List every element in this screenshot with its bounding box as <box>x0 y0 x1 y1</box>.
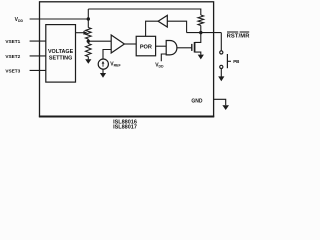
wire buffer input from RST node <box>167 21 186 32</box>
transistor Q1 drain <box>195 33 201 43</box>
wire VDD to AND lower input <box>161 54 166 61</box>
IC outline bottom edge (thicker) <box>39 116 214 118</box>
wire VDD rail up from junction <box>87 9 89 28</box>
ground symbol GND pin <box>222 105 229 110</box>
svg-text:ISL88017: ISL88017 <box>113 125 137 131</box>
AND gate <box>166 41 177 55</box>
buffer feedback (points left) <box>158 15 167 27</box>
wire POR to AND gate <box>156 45 167 47</box>
ground below VREF <box>102 69 104 73</box>
resistor divider bottom <box>86 44 92 57</box>
pull-up resistor R1 <box>198 15 204 26</box>
wire VREF to comparator <box>103 50 111 60</box>
wire wiper from voltage setting to divider <box>76 32 85 34</box>
transistor Q1 channel bar <box>194 42 196 53</box>
wire RST/MR output <box>187 32 222 34</box>
ground below MOSFET <box>198 55 204 60</box>
VREF arrow inside <box>102 63 104 67</box>
svg-text:SETTING: SETTING <box>49 56 72 62</box>
ground below divider <box>87 57 89 60</box>
wire tap to comparator <box>87 39 89 44</box>
ground below PB <box>218 76 224 81</box>
wire VSET2 <box>30 55 46 57</box>
PB contact circle top <box>220 51 223 54</box>
svg-text:VSET2: VSET2 <box>5 54 20 59</box>
svg-text:VSET1: VSET1 <box>5 39 20 44</box>
wire buffer output to POR top <box>146 21 159 36</box>
svg-text:PB: PB <box>233 59 239 64</box>
node divider tap dot <box>87 40 90 43</box>
node VDD junction dot <box>87 17 90 20</box>
PB contact circle bottom <box>220 65 223 68</box>
svg-text:POR: POR <box>140 44 152 50</box>
wire VSET3 <box>30 69 46 71</box>
svg-text:GND: GND <box>191 99 203 105</box>
IC outline box <box>40 2 214 117</box>
wire PB to ground <box>220 68 222 76</box>
wire VSET1 <box>30 40 46 42</box>
block POR <box>136 36 155 56</box>
node RST junction dot <box>199 31 202 34</box>
reference VREF source circle <box>98 59 108 69</box>
PB tick <box>227 60 231 62</box>
wiper arrowhead <box>83 31 87 35</box>
resistor divider top (pot) <box>86 28 92 40</box>
wire VDD input <box>30 18 89 20</box>
comparator U1 <box>111 35 124 53</box>
svg-text:RST/MR: RST/MR <box>227 33 251 39</box>
transistor Q1 gate bar <box>191 44 193 51</box>
svg-text:VOLTAGE: VOLTAGE <box>48 49 74 55</box>
wire resistor to RST node <box>200 26 202 33</box>
wire comparator output to POR <box>124 43 136 45</box>
wire AND output to MOSFET gate <box>177 47 192 49</box>
push button PB branch wire <box>220 33 222 51</box>
wire top VDD rail <box>88 9 201 15</box>
wire GND out <box>214 99 226 105</box>
transistor Q1 source <box>195 52 201 55</box>
PB actuator bar <box>226 54 228 68</box>
svg-text:VSET3: VSET3 <box>5 68 20 73</box>
block VOLTAGE SETTING <box>46 25 76 83</box>
label RST/MR with overline <box>227 31 238 33</box>
